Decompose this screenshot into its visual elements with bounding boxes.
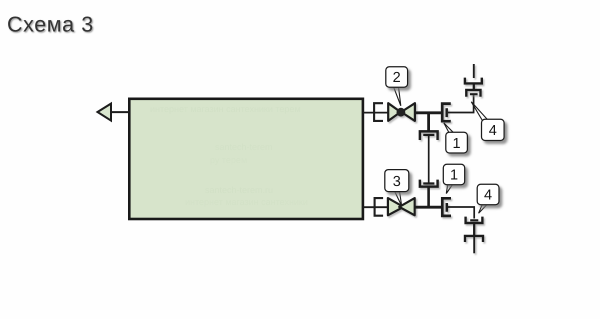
coupling lower flange (ticks down)	[466, 90, 480, 97]
callout box 4 top	[482, 119, 505, 140]
wire: thin pipe union 1 to elbow (top)	[448, 95, 474, 113]
union 1 bottom (bracket + nut dash)	[442, 198, 451, 216]
wire: thick pipe valve 3 to union 1 (bottom)	[415, 206, 442, 209]
coupling upper flange	[465, 78, 482, 84]
svg-text:интернет магазин сантехники: интернет магазин сантехники	[185, 197, 308, 207]
union tailpiece bracket at radiator (bottom)	[375, 198, 384, 216]
svg-text:2: 2	[393, 70, 401, 86]
wire: supply pipe radiator to union bracket to valve 2	[363, 112, 389, 114]
callout box 4 bottom	[477, 184, 499, 204]
valve 2 (ball valve, bowtie + ball)	[388, 103, 415, 121]
coupling nut dash	[470, 219, 478, 221]
coupling lower flange	[465, 236, 483, 242]
coupling upper flange (ticks up)	[466, 217, 483, 223]
callout tail 3	[395, 192, 402, 206]
callout box 1 top	[446, 132, 468, 153]
callout tail 1 bottom	[446, 185, 452, 194]
wire: return pipe radiator to union bracket to valve 3	[363, 206, 389, 208]
callout box 3	[385, 170, 409, 192]
callout box 1 bottom	[443, 164, 464, 184]
valve 3 (bowtie crossing)	[388, 198, 415, 215]
coupling stub	[473, 223, 475, 236]
svg-text:4: 4	[484, 188, 492, 204]
svg-text:Схема 3: Схема 3	[7, 13, 94, 37]
svg-text:3: 3	[393, 174, 401, 190]
callout tail 1 top	[444, 123, 453, 133]
bypass top union (bracket down + dash)	[420, 131, 438, 140]
coupling nut dash	[470, 93, 478, 95]
svg-text:1: 1	[450, 168, 458, 184]
wire: free pipe end (top)	[473, 64, 475, 78]
callout tail 2	[394, 88, 401, 106]
svg-text:ру терем: ру терем	[210, 155, 247, 165]
coupling stub	[473, 83, 475, 89]
svg-text:santech-terem: santech-terem	[215, 142, 273, 152]
bypass bottom union (dash + bracket up)	[420, 180, 438, 187]
svg-text:santech‑terem.ru: santech‑terem.ru	[205, 185, 273, 195]
wire: bypass thin pipe	[428, 135, 430, 183]
callout tail 4 top	[471, 102, 487, 121]
callout tail 4 bottom	[479, 205, 487, 214]
air-vent arrow (left pointing triangle)	[98, 104, 112, 121]
wire: thick pipe valve 2 to union 1 (top)	[415, 111, 442, 114]
wire: free pipe end (bottom)	[473, 236, 475, 253]
svg-text:1: 1	[453, 136, 461, 152]
riser connection 4 (bottom): union coupling on vertical pipe	[465, 217, 483, 254]
radiator (green rectangle)	[129, 99, 363, 219]
union 1 top (bracket + nut dash)	[442, 104, 451, 122]
union tailpiece bracket at radiator (top)	[374, 103, 383, 121]
wire: arrow stub to radiator	[112, 111, 130, 113]
callout box 2	[386, 67, 408, 87]
svg-text:интернет магазин сантехники те: интернет магазин сантехники терем	[150, 104, 301, 114]
wire: bypass stub to return pipe	[427, 187, 430, 208]
riser connection 4 (top): union coupling on vertical pipe	[465, 64, 482, 97]
radiator faint watermark text	[150, 104, 308, 207]
svg-text:4: 4	[489, 123, 497, 139]
wire: thin pipe union 1 to elbow (bottom)	[448, 207, 474, 219]
bypass tee stub (top)	[427, 113, 430, 131]
